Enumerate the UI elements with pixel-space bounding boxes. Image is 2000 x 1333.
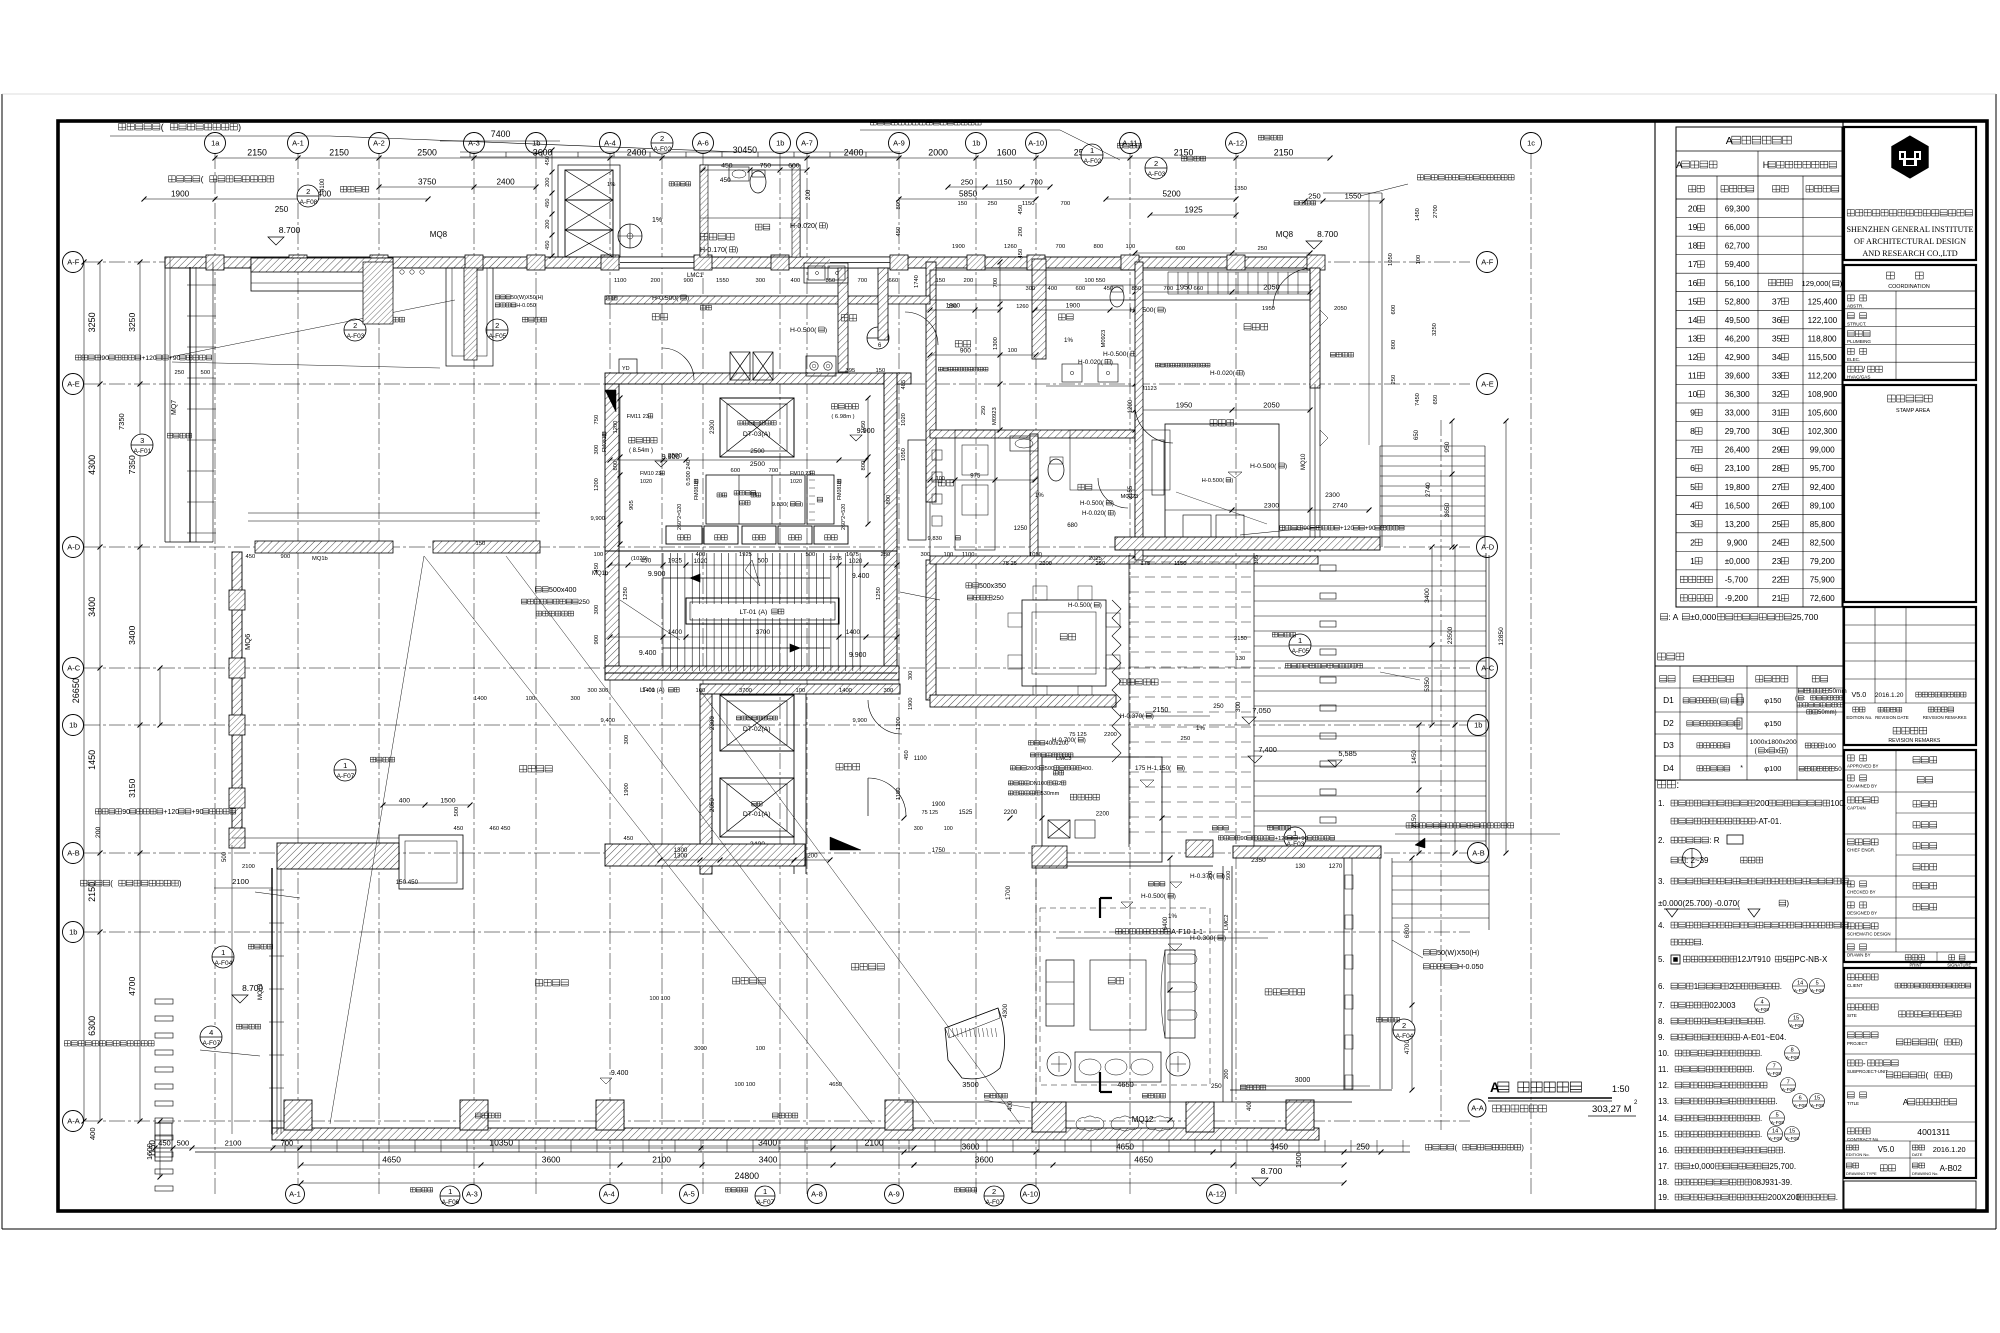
svg-text:H-0.020(: H-0.020( [790,223,818,230]
svg-text:4: 4 [1761,1000,1764,1006]
svg-text:450: 450 [158,1139,171,1148]
svg-text:150: 150 [958,201,968,207]
svg-text:13: 13 [1688,333,1698,343]
svg-text:-5,700: -5,700 [1725,576,1749,585]
svg-text:1400: 1400 [642,688,655,694]
svg-text:16.: 16. [1658,1146,1669,1155]
svg-text:2100: 2100 [652,1155,671,1165]
svg-text:7.: 7. [1658,1001,1665,1010]
svg-text:400.: 400. [1082,766,1094,772]
paper trim edge [1,94,3,1229]
svg-text:69,300: 69,300 [1725,205,1750,214]
svg-text:±0,000: ±0,000 [1725,557,1750,566]
svg-text:300: 300 [1235,701,1242,712]
svg-text:1300: 1300 [674,847,688,854]
svg-text:700: 700 [1030,178,1043,187]
svg-text:3600: 3600 [962,1143,980,1152]
svg-text:(: ( [201,174,204,184]
svg-text:7: 7 [1787,1080,1790,1086]
client/project info block [1844,968,1976,1178]
svg-text:395: 395 [846,368,856,374]
svg-text:42,900: 42,900 [1725,353,1750,362]
svg-text:A-F04: A-F04 [1396,1033,1414,1040]
svg-text:100: 100 [1008,348,1018,354]
svg-text:200: 200 [1756,799,1770,808]
svg-text:φ150: φ150 [1764,719,1781,728]
svg-text:4700: 4700 [127,977,137,996]
svg-text:1975: 1975 [829,556,842,562]
svg-text:2: 2 [992,1187,996,1196]
svg-text:1950: 1950 [1262,306,1275,312]
svg-text:MQ1b: MQ1b [312,556,328,562]
svg-text:CHECKED BY: CHECKED BY [1847,890,1876,895]
svg-text:2000: 2000 [928,148,948,158]
svg-text:1740: 1740 [914,275,920,288]
svg-text:3400: 3400 [87,597,97,617]
svg-text:9,900: 9,900 [853,718,868,724]
svg-text:FM11 23: FM11 23 [627,414,649,420]
svg-text:19.: 19. [1658,1193,1669,1202]
svg-text:3250: 3250 [1432,323,1438,336]
svg-text:A-10: A-10 [1022,1190,1038,1199]
svg-text:28: 28 [1772,463,1782,473]
svg-text:36,300: 36,300 [1725,390,1750,399]
svg-text:300: 300 [908,671,914,680]
svg-text:SUBPROJECT-UNIT: SUBPROJECT-UNIT [1847,1069,1888,1074]
svg-text:.: . [1780,982,1782,991]
svg-text:195: 195 [1254,555,1260,565]
svg-text:D3: D3 [1663,740,1674,750]
svg-text:): ) [1224,935,1226,942]
svg-text:7,400: 7,400 [1258,745,1277,754]
svg-text:100: 100 [1416,255,1422,265]
svg-text:2300: 2300 [709,419,716,434]
svg-text:4001311: 4001311 [1917,1127,1950,1137]
svg-text:*: * [1740,765,1743,772]
svg-text:A-E: A-E [1481,380,1494,389]
svg-text:450: 450 [720,177,731,184]
svg-text:1400: 1400 [668,629,683,636]
svg-text:32: 32 [1772,389,1782,399]
svg-text:680: 680 [1067,522,1078,529]
svg-text:29,700: 29,700 [1725,427,1750,436]
svg-text:.: . [1836,1193,1838,1202]
svg-text:A-1: A-1 [292,139,304,148]
svg-text:3400: 3400 [127,626,137,645]
svg-text:150 450: 150 450 [396,879,419,886]
svg-text:A-F09: A-F09 [1794,1103,1807,1109]
svg-text:A-1: A-1 [289,1190,301,1199]
svg-text:300: 300 [1026,286,1036,292]
svg-text:16: 16 [1688,278,1698,288]
svg-text:15: 15 [1789,1129,1795,1135]
svg-text:2100: 2100 [225,1139,242,1148]
svg-text:A-3: A-3 [466,1190,478,1199]
svg-text:+120: +120 [1340,525,1354,532]
approval names block [1844,750,1976,962]
svg-text:7: 7 [1773,1064,1776,1070]
svg-text:129,000(: 129,000( [1802,279,1832,288]
svg-text:90: 90 [1241,836,1247,842]
svg-text:18: 18 [1688,241,1698,251]
svg-text:1900: 1900 [624,783,630,796]
svg-text:200: 200 [964,278,974,284]
svg-text:660: 660 [889,278,899,284]
svg-text:108,900: 108,900 [1808,390,1838,399]
svg-text:5200: 5200 [1163,190,1182,199]
svg-text:130: 130 [1236,656,1246,662]
svg-text:300: 300 [624,735,630,745]
svg-text:4100: 4100 [320,178,326,192]
svg-text:H-0.500(: H-0.500( [1068,602,1093,609]
svg-text:): ) [1285,463,1287,470]
svg-text:400x200: 400x200 [1046,741,1070,747]
svg-text:905: 905 [629,500,635,510]
svg-text:500: 500 [758,558,769,565]
svg-text:400: 400 [1048,286,1058,292]
svg-text:13.: 13. [1658,1097,1669,1106]
revision record block [1844,607,1976,745]
svg-text:SITE: SITE [1847,1013,1857,1018]
svg-text:14: 14 [1797,981,1803,987]
svg-text:31: 31 [1772,408,1782,418]
svg-text:1: 1 [1293,829,1297,838]
svg-text:2400: 2400 [844,148,864,158]
svg-text:2200: 2200 [1004,809,1018,816]
svg-text:A-F09: A-F09 [1811,1103,1824,1109]
svg-text:800: 800 [886,495,892,505]
svg-text:700: 700 [1056,244,1066,250]
svg-text:D2: D2 [1663,718,1674,728]
svg-text:DT-02(A): DT-02(A) [743,726,771,733]
svg-text:400: 400 [399,798,411,805]
svg-text:M0923: M0923 [992,407,998,425]
svg-text:250: 250 [1211,1083,1222,1090]
svg-text:3700: 3700 [739,688,752,694]
svg-text:2300: 2300 [709,716,716,730]
svg-text:STRUCT.: STRUCT. [1847,321,1866,326]
svg-text:A-F09: A-F09 [1811,988,1824,994]
svg-text:400: 400 [1008,1100,1014,1111]
svg-text:MQ7: MQ7 [171,400,178,415]
svg-text:A-F09: A-F09 [1790,1023,1803,1029]
svg-text:): ) [1183,765,1185,772]
svg-text:12.: 12. [1658,1081,1669,1090]
svg-text:500: 500 [1045,766,1055,772]
svg-text:100: 100 [796,688,806,694]
svg-text:.: . [1776,1097,1778,1106]
svg-text:08J931-39.: 08J931-39. [1752,1178,1792,1187]
svg-text:A-C: A-C [1481,664,1495,673]
svg-text:): ) [1950,1071,1953,1080]
svg-text:1%: 1% [1196,725,1205,732]
svg-text:4650: 4650 [1117,1080,1133,1089]
svg-text:DRAWING TYPE: DRAWING TYPE [1846,1171,1877,1176]
svg-text:530mm: 530mm [1041,791,1060,797]
svg-text:H-0.020(: H-0.020( [1210,370,1236,377]
svg-text:500: 500 [454,807,460,817]
svg-text:(1020): (1020) [631,556,648,562]
svg-text:COORDINATION: COORDINATION [1888,284,1930,290]
svg-text:1750: 1750 [932,848,946,854]
svg-text:8.700: 8.700 [279,225,301,235]
svg-text:24: 24 [1772,537,1782,547]
svg-text:1525: 1525 [959,809,973,816]
svg-text:100: 100 [1825,743,1837,750]
svg-text:-9,200: -9,200 [1725,594,1749,603]
svg-text:1950: 1950 [1176,401,1192,410]
svg-text:(: ( [1936,1038,1939,1047]
svg-text:25,700: 25,700 [1792,612,1819,622]
svg-text:5350: 5350 [1424,677,1431,692]
svg-text:A-9: A-9 [888,1190,900,1199]
svg-text:1350: 1350 [1234,186,1247,192]
svg-text:200: 200 [545,220,551,229]
svg-text:62,700: 62,700 [1725,242,1750,251]
svg-text:.: . [1760,1130,1762,1139]
svg-text:A-B02: A-B02 [1940,1164,1963,1173]
svg-text:H-0.500(: H-0.500( [1080,500,1105,507]
svg-text:46,200: 46,200 [1725,334,1750,343]
svg-text:1500: 1500 [440,798,455,805]
svg-text:900: 900 [960,348,971,355]
svg-text:4: 4 [209,1028,213,1037]
svg-text:200: 200 [651,278,661,284]
svg-text:8.: 8. [1658,1017,1665,1026]
svg-text:500x400: 500x400 [549,585,577,594]
svg-text:): ) [1231,478,1233,484]
svg-text:1020: 1020 [640,479,652,485]
svg-text:A-4: A-4 [604,139,616,148]
svg-text:5: 5 [1776,1113,1779,1119]
svg-text:950: 950 [1444,441,1451,452]
svg-text:A-12: A-12 [1208,1190,1224,1199]
svg-text:±0.000(25.700) -0.070(: ±0.000(25.700) -0.070( [1658,899,1740,908]
svg-text:100: 100 [936,476,945,482]
svg-text:2740: 2740 [1332,503,1347,510]
svg-text:250: 250 [981,406,987,415]
svg-text:1020: 1020 [694,558,708,565]
roof shaft and WC protrusion [565,170,613,200]
svg-text:H-0.170(: H-0.170( [700,247,728,254]
svg-text:DESIGNED BY: DESIGNED BY [1847,911,1877,916]
svg-text:900: 900 [281,554,291,560]
svg-text:1900: 1900 [171,190,190,199]
svg-text:5: 5 [1690,482,1695,492]
svg-text:1150: 1150 [996,178,1012,187]
svg-text:9,830: 9,830 [928,536,943,542]
svg-text:20: 20 [1688,204,1698,214]
svg-text:450: 450 [594,563,600,573]
svg-text:): ) [1786,748,1788,755]
svg-text:300: 300 [594,445,600,455]
svg-text:2.: 2. [1658,836,1665,845]
svg-text:+90: +90 [1298,836,1308,842]
svg-text:6300: 6300 [87,1016,97,1036]
svg-text:REVISION REMARKS: REVISION REMARKS [1888,738,1940,744]
svg-text:2100: 2100 [242,864,255,870]
svg-text:50(W)X50(H): 50(W)X50(H) [511,295,544,301]
sheet frame [58,121,1987,1211]
svg-text:1: 1 [343,761,347,770]
svg-text:250: 250 [993,595,1004,602]
svg-text:100: 100 [594,552,604,558]
svg-text:9,900: 9,900 [591,516,606,522]
svg-text:A-F07: A-F07 [337,773,355,780]
svg-text:1c: 1c [1527,139,1535,148]
svg-text:100 550: 100 550 [1084,278,1105,284]
svg-text:500x350: 500x350 [979,583,1006,590]
svg-text:DRAWN BY: DRAWN BY [1847,953,1871,958]
svg-text:22: 22 [1772,575,1782,585]
svg-text:HVAC/GAS: HVAC/GAS [1847,375,1870,380]
svg-text:9: 9 [1690,408,1695,418]
svg-text:A-C: A-C [67,664,81,673]
svg-text:8.700: 8.700 [1261,1166,1283,1176]
svg-text:A-F05: A-F05 [489,333,507,340]
svg-text:PROJECT: PROJECT [1847,1041,1868,1046]
svg-text:2740: 2740 [1425,482,1432,497]
svg-text:900: 900 [684,278,694,284]
svg-text:A-4: A-4 [603,1190,615,1199]
svg-text:200: 200 [1018,227,1024,237]
svg-text:1500: 1500 [1296,1152,1303,1168]
svg-text:75 25: 75 25 [1003,561,1018,567]
svg-text:+120: +120 [141,355,157,362]
svg-text:450: 450 [896,227,902,237]
svg-text:H-0.500(: H-0.500( [790,327,817,334]
svg-text:PRINT: PRINT [1910,963,1923,968]
svg-text:YD: YD [622,366,630,372]
svg-text:): ) [1174,893,1176,900]
svg-text:1925: 1925 [1185,206,1204,215]
svg-text:7350: 7350 [117,413,126,430]
svg-text:2: 2 [1154,159,1158,168]
svg-text:H-0.500(: H-0.500( [1141,893,1167,900]
svg-text:700: 700 [281,1139,294,1148]
svg-text:450: 450 [545,199,551,208]
svg-text:485: 485 [901,380,907,390]
svg-text:A-F09: A-F09 [1794,988,1807,994]
company title block with logo [1844,127,1976,260]
svg-text:±0,000: ±0,000 [1690,1162,1715,1171]
svg-text:25: 25 [1772,519,1782,529]
core stairs and elevators [605,373,911,384]
svg-text:DN100: DN100 [1030,781,1047,787]
svg-text:17.: 17. [1658,1162,1669,1171]
svg-text:9.900: 9.900 [648,571,666,578]
svg-text:2: 2 [353,321,357,330]
svg-text:4.: 4. [1658,921,1665,930]
svg-text:118,800: 118,800 [1808,334,1837,343]
svg-text:A-6: A-6 [697,139,709,148]
svg-text:82,500: 82,500 [1810,538,1835,547]
svg-text:33: 33 [1772,371,1782,381]
svg-text:7: 7 [1690,445,1695,455]
svg-text:.: . [1764,1017,1766,1026]
svg-text:105,600: 105,600 [1808,409,1838,418]
svg-text:SCHEMATIC DESIGN: SCHEMATIC DESIGN [1847,932,1891,937]
svg-text:): ) [687,295,689,302]
svg-text:1260: 1260 [1016,304,1028,310]
svg-text:200: 200 [545,178,551,187]
svg-text:3400: 3400 [759,1155,778,1165]
svg-text:300: 300 [921,552,931,558]
svg-text:1700: 1700 [1005,885,1012,900]
svg-text:450: 450 [246,554,256,560]
svg-text:600: 600 [1076,286,1086,292]
svg-text:49,500: 49,500 [1725,316,1750,325]
svg-text:14: 14 [1688,315,1698,325]
svg-text:4650: 4650 [1134,1155,1153,1165]
svg-text:16,500: 16,500 [1725,501,1750,510]
svg-text:): ) [1164,307,1166,314]
svg-text:250: 250 [275,205,289,214]
svg-text:2300: 2300 [1264,503,1279,510]
svg-text:300: 300 [571,696,581,702]
svg-text:(: ( [1795,696,1797,702]
svg-text:2200: 2200 [1096,812,1110,818]
svg-text:800: 800 [861,461,867,471]
left dimension chains [99,262,101,1121]
svg-text:2150: 2150 [1153,707,1169,714]
svg-text:H-0.020(: H-0.020( [1082,510,1107,517]
svg-text:15: 15 [1793,1016,1799,1022]
svg-text:1675: 1675 [846,552,859,558]
svg-text:1400: 1400 [846,629,861,636]
svg-text:CAPTAIN: CAPTAIN [1847,806,1866,811]
svg-text:4300: 4300 [87,455,97,475]
svg-text:700: 700 [769,468,779,474]
svg-text:A-F09: A-F09 [1768,1071,1781,1077]
svg-text:500: 500 [177,1139,190,1148]
svg-text:OF ARCHITECTURAL DESIGN: OF ARCHITECTURAL DESIGN [1854,237,1966,246]
svg-text:): ) [825,327,827,334]
svg-text:H-0.370(: H-0.370( [1190,873,1216,880]
svg-text:2: 2 [660,134,664,143]
svg-text:1100: 1100 [914,756,928,762]
bottom exterior wall [272,1128,1319,1140]
svg-text:700: 700 [1061,201,1071,207]
svg-text:MQ8: MQ8 [430,230,448,239]
svg-text:303,27 M: 303,27 M [1592,1104,1632,1115]
svg-text:1100: 1100 [962,552,974,558]
svg-text:A-10: A-10 [1028,139,1044,148]
svg-text:): ) [1114,510,1116,517]
svg-text:SHENZHEN GENERAL INSTITUTE: SHENZHEN GENERAL INSTITUTE [1846,225,1973,234]
svg-text:1050: 1050 [861,421,867,434]
svg-text:A-F09: A-F09 [1756,1007,1769,1013]
svg-text:1b: 1b [776,139,784,148]
svg-text:9.400: 9.400 [611,1070,629,1077]
svg-text:600: 600 [731,468,741,474]
svg-text:700: 700 [1164,286,1174,292]
svg-text:450: 450 [904,750,910,760]
svg-text:4700: 4700 [1404,1040,1411,1055]
svg-text:MQ10: MQ10 [1301,453,1307,470]
svg-text:2500: 2500 [750,461,765,468]
svg-text:2500: 2500 [668,453,683,460]
svg-text:.: . [1752,1065,1754,1074]
svg-text:1%: 1% [1035,493,1044,499]
svg-text:): ) [826,223,828,230]
svg-text:D1: D1 [1663,695,1674,705]
svg-text:300: 300 [914,826,923,832]
svg-text:39,600: 39,600 [1725,372,1750,381]
svg-text::: : [1676,780,1679,791]
svg-text:26650: 26650 [71,678,81,703]
svg-text:1: 1 [1090,146,1094,155]
